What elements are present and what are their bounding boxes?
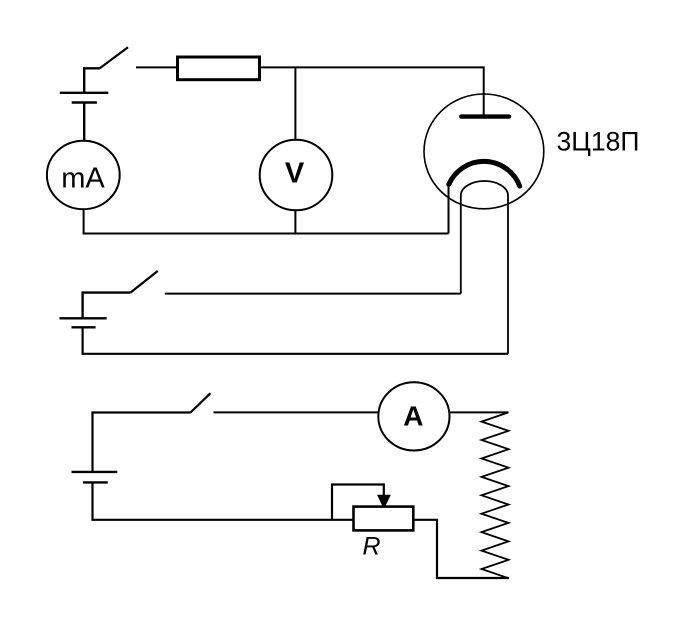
wire B2 top lead: [83, 293, 131, 319]
battery B1: [60, 93, 109, 103]
svg-text:3Ц18П: 3Ц18П: [557, 126, 640, 156]
wire mA bottom lead: [83, 209, 85, 233]
label 3Ц18П: [557, 126, 640, 156]
battery B3: [72, 472, 118, 483]
wire ammeter to load resistor: [450, 411, 509, 413]
cathode of U1 (thick arc): [449, 161, 520, 186]
svg-text:V: V: [285, 157, 305, 189]
wire B3 top lead: [93, 413, 191, 472]
ammeter A: [378, 382, 449, 450]
label R: [363, 532, 381, 560]
wire resistor to tube anode: [260, 67, 484, 115]
milliammeter mA: [47, 141, 120, 209]
node junction voltmeter top: [294, 67, 296, 139]
battery B2: [59, 318, 106, 327]
wire B3 bottom rail to rheostat: [93, 482, 354, 519]
wire B1 top lead: [84, 68, 100, 93]
svg-text:mA: mA: [61, 162, 105, 194]
switch S3 blade: [191, 393, 211, 412]
switch S1 blade: [100, 47, 128, 68]
wire switch S2 to heater left leg: [165, 293, 461, 295]
switch S2 blade: [131, 271, 158, 293]
vacuum tube U1 envelope: [424, 94, 544, 209]
wire B2 bottom rail to heater right leg: [83, 327, 508, 354]
rheostat tap wire: [332, 485, 384, 520]
resistor load (zigzag): [482, 412, 509, 578]
svg-text:A: A: [403, 401, 423, 432]
wire switch S1 to resistor: [136, 66, 178, 68]
wire bottom rail of tube circuit: [83, 233, 449, 235]
wire switch S3 to ammeter: [214, 411, 379, 413]
voltmeter V: [260, 140, 333, 211]
wire B1 bottom to mA: [83, 103, 85, 142]
wire voltmeter bottom lead: [294, 210, 296, 233]
rheostat R body: [354, 507, 414, 531]
svg-text:R: R: [363, 532, 381, 560]
wire rheostat to load resistor bottom: [413, 520, 509, 578]
heater filament of U1 (thin loop): [461, 181, 508, 354]
wire cathode lead: [448, 187, 450, 234]
rheostat wiper arrowhead: [377, 495, 391, 507]
resistor (anode series): [178, 57, 260, 80]
anode plate of U1: [461, 114, 509, 118]
